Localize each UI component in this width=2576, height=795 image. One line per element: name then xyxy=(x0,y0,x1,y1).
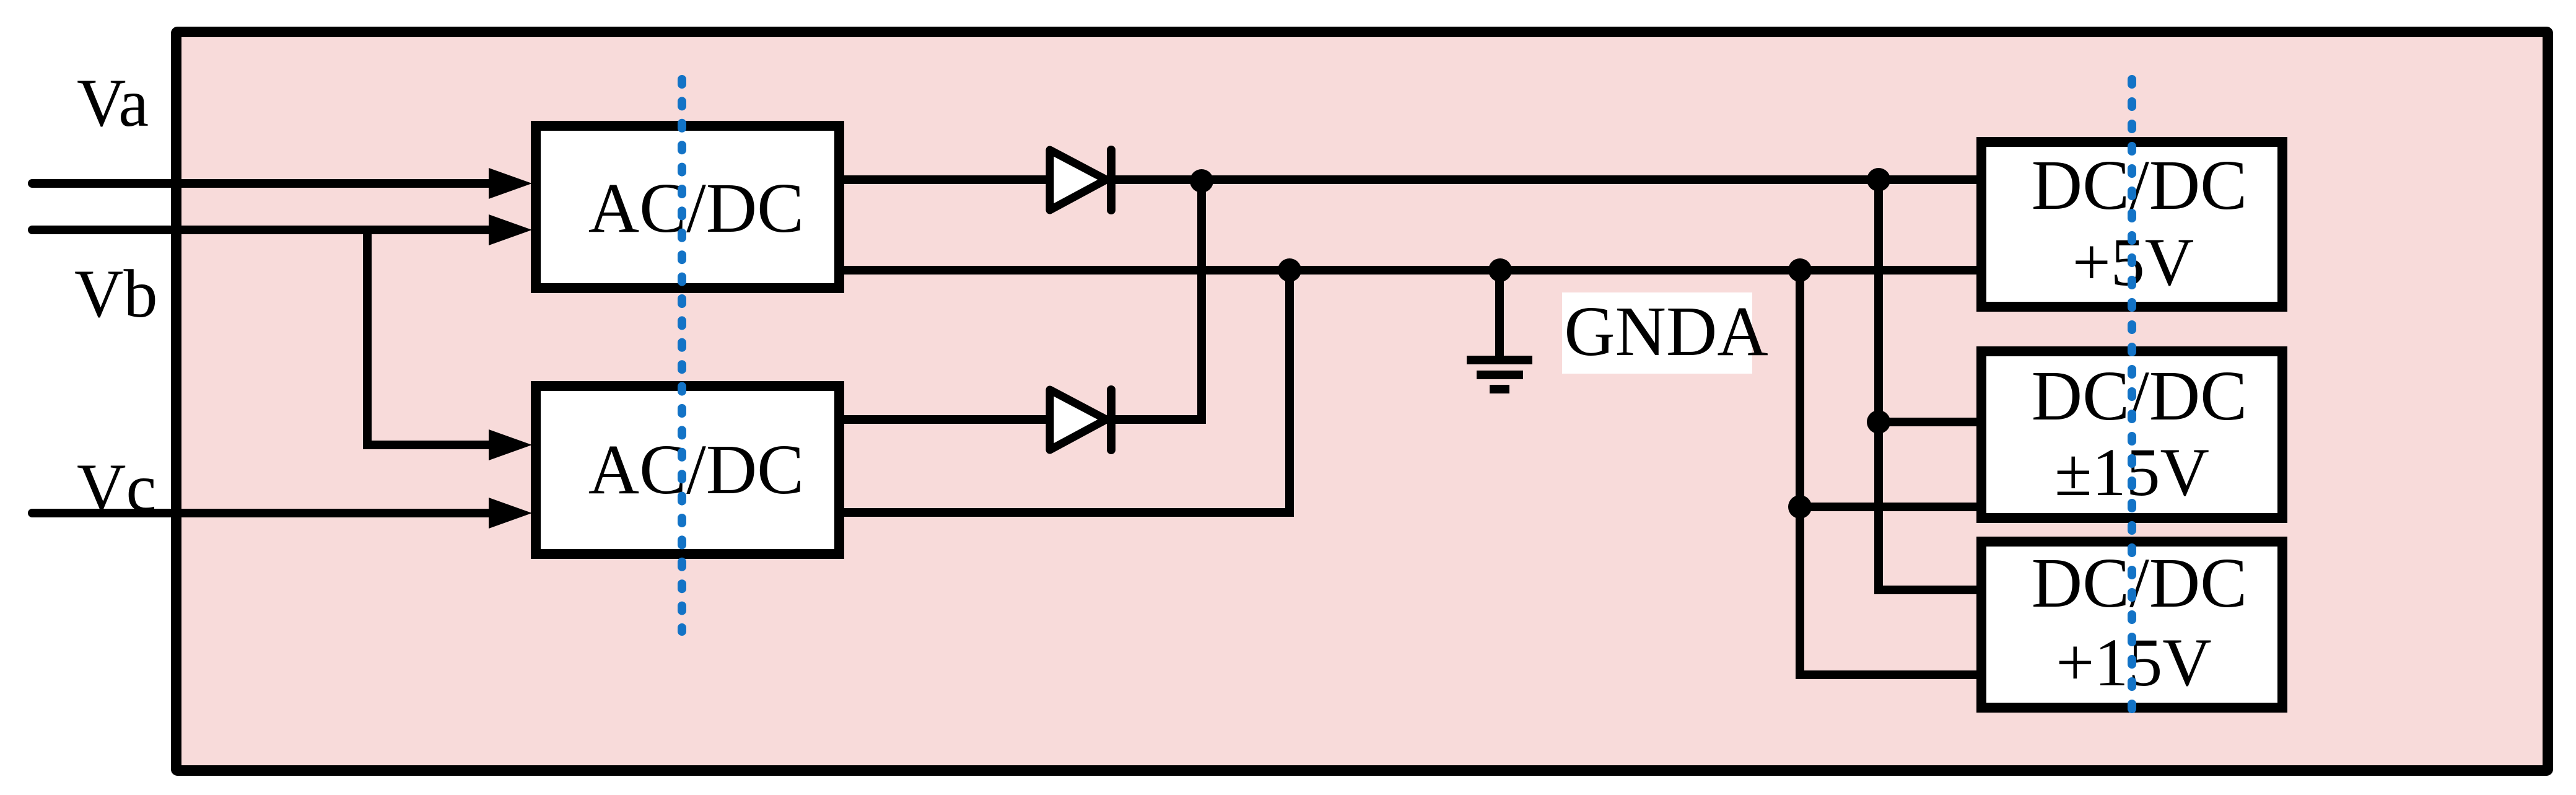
wire supply stub to DC/DC ±15V xyxy=(1879,418,1976,426)
wire U2 ground output xyxy=(844,270,1290,512)
net label GNDA xyxy=(1562,292,1768,374)
svg-text:DC/DC: DC/DC xyxy=(2032,356,2247,435)
ground GNDA symbol xyxy=(1467,270,1532,389)
junction ground rail / drop xyxy=(1788,258,1812,282)
junction positive rail / drop xyxy=(1867,168,1890,191)
AC/DC converter U2 xyxy=(536,386,839,554)
wire U1 ground rail GNDA xyxy=(844,266,1976,275)
junction drop / DC/DC ±15V supply stub xyxy=(1867,410,1890,434)
wire ground stub to DC/DC ±15V xyxy=(1800,503,1976,511)
diode D1 xyxy=(1050,150,1111,210)
svg-text:Va: Va xyxy=(77,65,149,141)
wire Va input xyxy=(32,179,496,188)
DC/DC converter +15V xyxy=(1981,542,2282,708)
svg-text:AC/DC: AC/DC xyxy=(588,169,804,247)
arrowhead Vc into U2 xyxy=(489,498,532,529)
junction drop / DC/DC ±15V ground stub xyxy=(1788,495,1812,519)
DC/DC converter +5V xyxy=(1981,142,2282,307)
arrowhead Vb into U1 xyxy=(489,214,532,245)
wire Vb branch to U2 xyxy=(367,230,496,445)
diode D2 xyxy=(1050,390,1111,450)
svg-text:GNDA: GNDA xyxy=(1564,292,1768,371)
wire Vc input xyxy=(32,509,496,517)
isolation dashed line through DC/DC converters xyxy=(2128,79,2136,713)
wire U1 positive output rail to DC/DC +5V xyxy=(844,175,1976,184)
wire U2 positive output through diode D2 up to positive rail xyxy=(844,180,1202,419)
isolation dashed line through AC/DC converters xyxy=(678,79,686,631)
svg-text:±15V: ±15V xyxy=(2054,434,2209,510)
svg-text:DC/DC: DC/DC xyxy=(2032,543,2247,622)
AC/DC converter U1 xyxy=(536,126,839,288)
wire Vb input xyxy=(32,226,496,234)
junction ground rail / earth xyxy=(1488,258,1512,282)
wire positive rail drop to DC/DC +15V input xyxy=(1879,180,1976,590)
svg-text:AC/DC: AC/DC xyxy=(588,430,804,509)
arrowhead Vb branch into U2 xyxy=(489,429,532,460)
junction positive rail / D2 branch xyxy=(1190,169,1213,193)
wire ground rail drop to DC/DC +15V input xyxy=(1800,270,1976,675)
svg-text:Vb: Vb xyxy=(74,256,157,332)
DC/DC converter ±15V xyxy=(1981,351,2282,518)
junction ground rail / U2 ground xyxy=(1278,258,1301,282)
svg-text:DC/DC: DC/DC xyxy=(2032,146,2247,224)
arrowhead Va into U1 xyxy=(489,168,532,199)
